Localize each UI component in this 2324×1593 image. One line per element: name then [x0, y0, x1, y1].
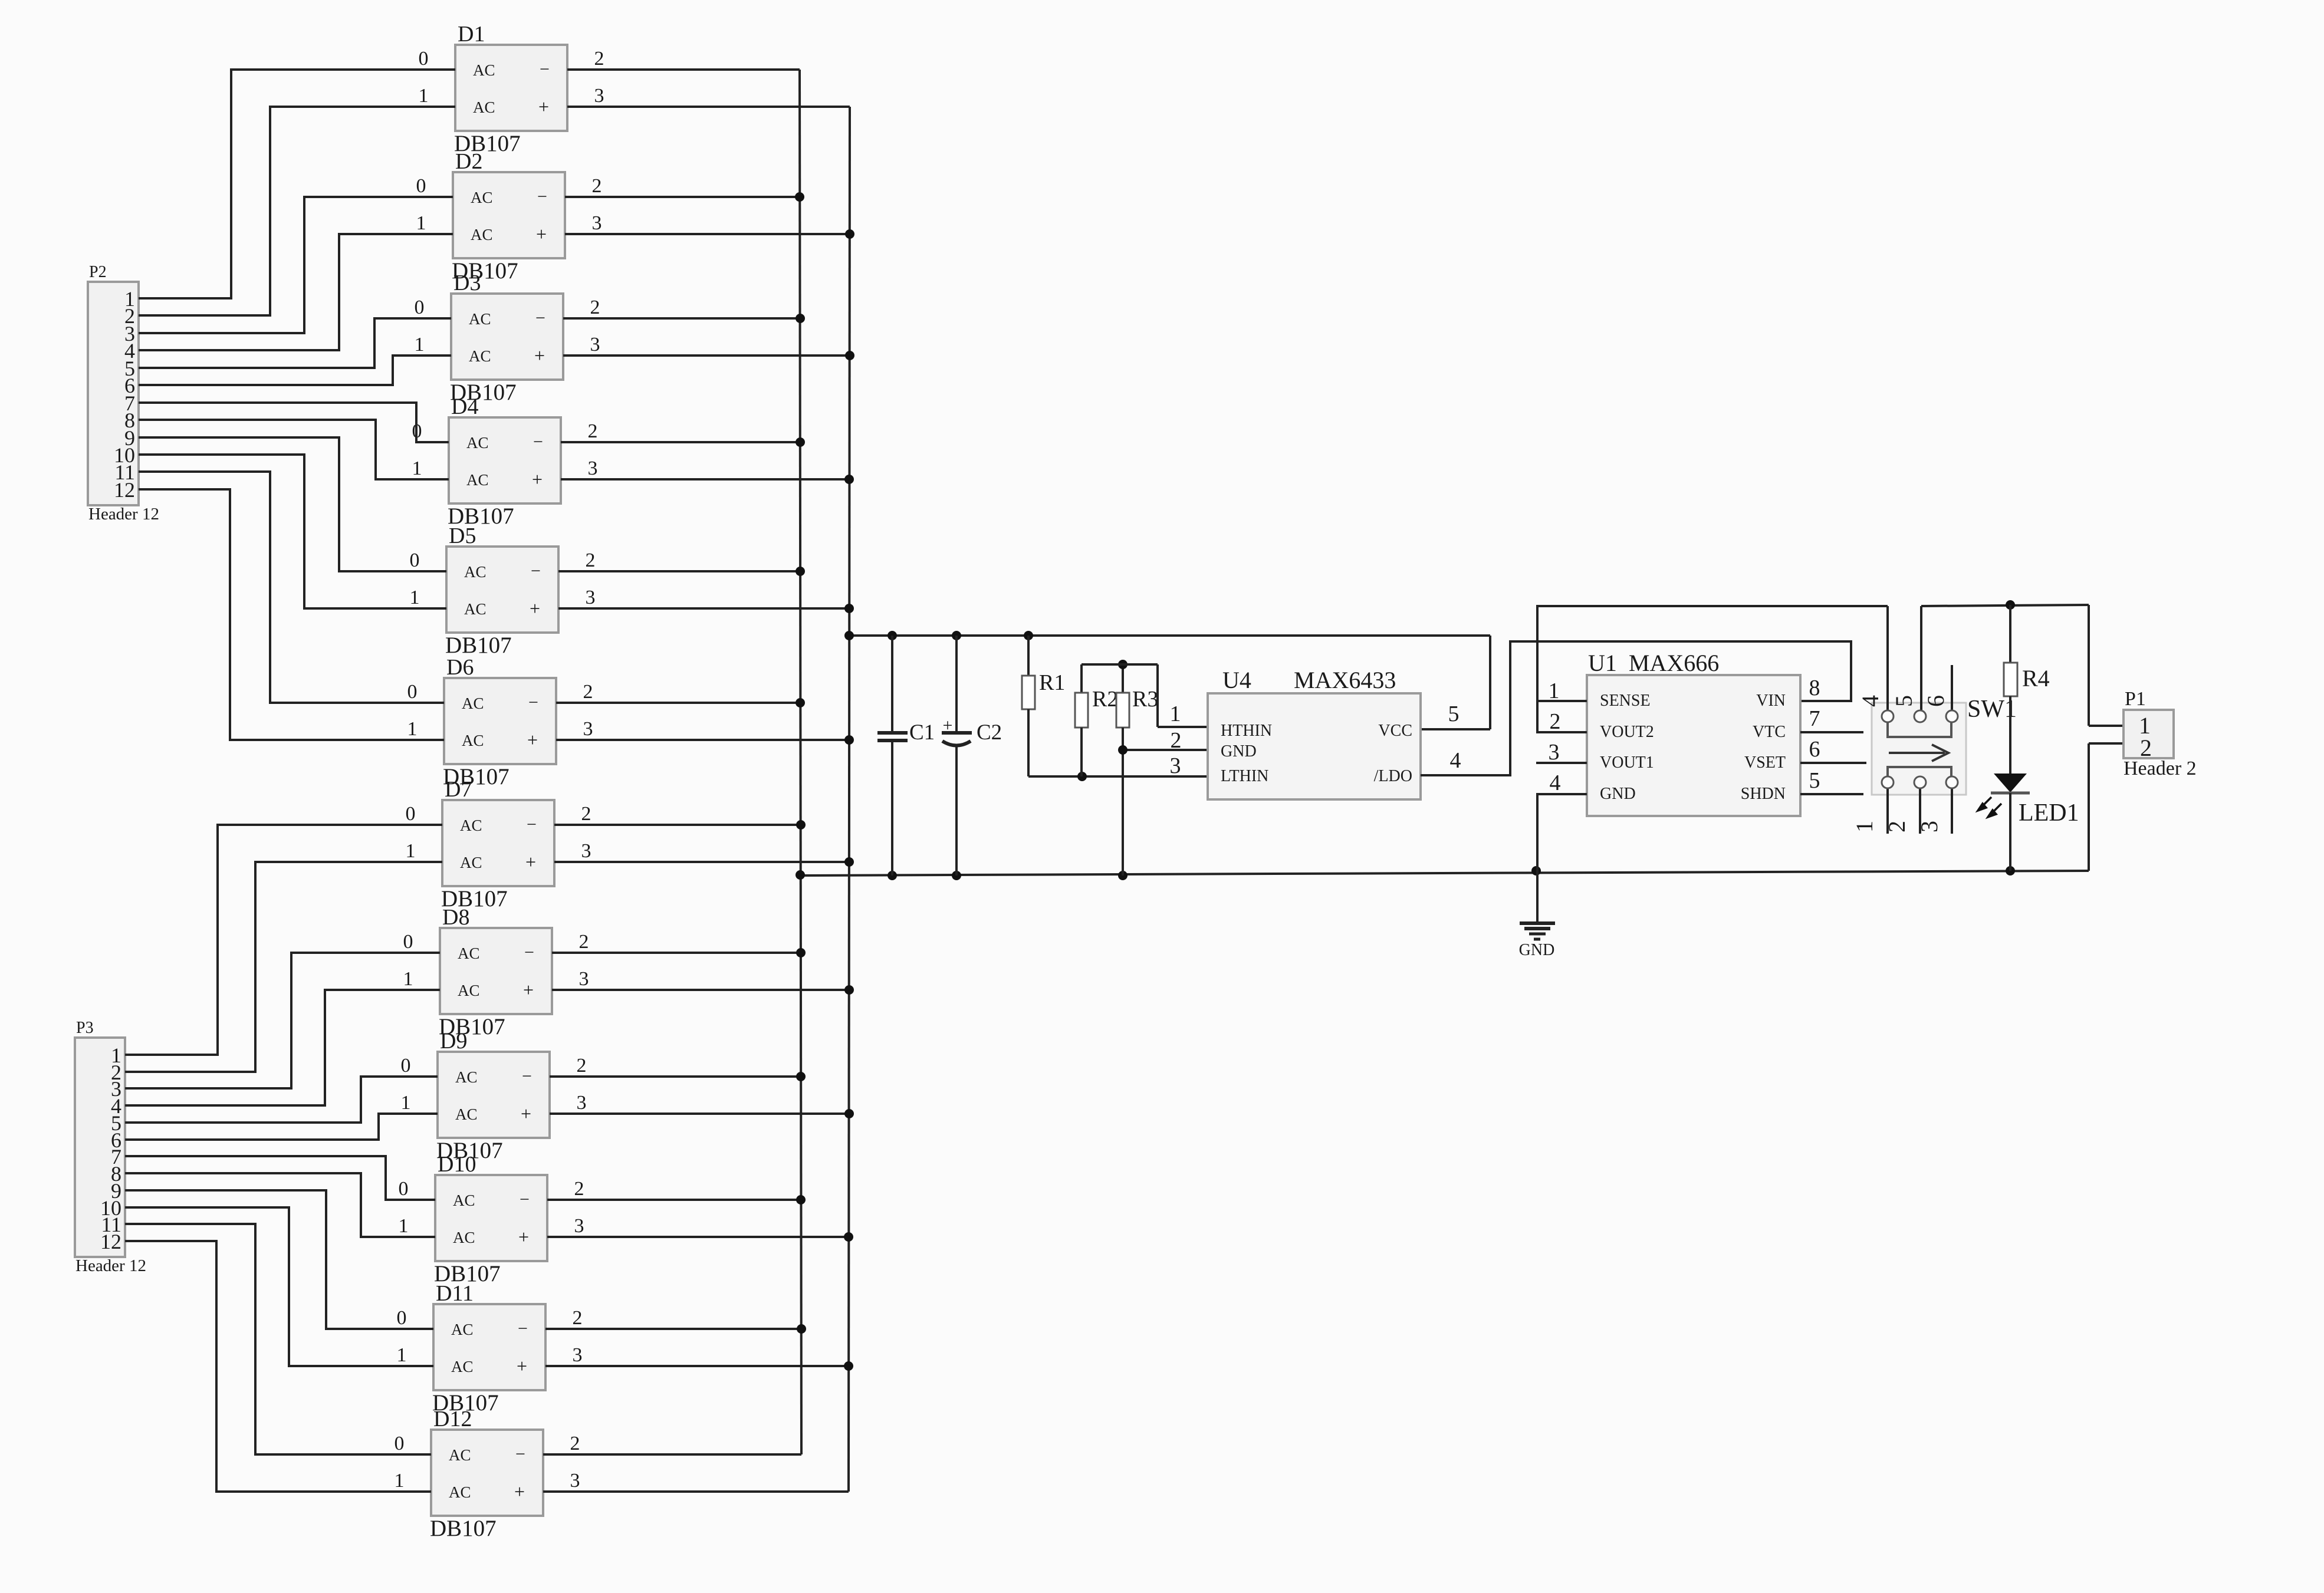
svg-text:R4: R4 [2022, 665, 2050, 692]
svg-text:+: + [521, 1103, 531, 1124]
svg-text:2: 2 [594, 48, 604, 70]
svg-text:3: 3 [581, 840, 591, 862]
svg-text:D9: D9 [440, 1029, 467, 1054]
svg-text:−: − [515, 1444, 525, 1464]
svg-text:−: − [533, 432, 543, 452]
svg-text:−: − [537, 187, 547, 206]
svg-text:1: 1 [1170, 702, 1181, 726]
svg-text:/LDO: /LDO [1374, 767, 1412, 785]
svg-text:C1: C1 [909, 720, 935, 745]
svg-text:2: 2 [574, 1178, 584, 1200]
svg-text:R3: R3 [1132, 687, 1158, 712]
svg-text:1: 1 [416, 212, 426, 234]
svg-text:2: 2 [579, 931, 589, 953]
svg-text:8: 8 [1809, 676, 1820, 700]
svg-text:D7: D7 [445, 777, 472, 802]
svg-text:+: + [527, 729, 538, 751]
svg-text:3: 3 [574, 1215, 584, 1237]
svg-text:2: 2 [586, 549, 596, 571]
svg-text:0: 0 [395, 1433, 405, 1454]
svg-text:+: + [943, 716, 953, 735]
svg-text:−: − [535, 308, 545, 328]
svg-text:P1: P1 [2125, 688, 2146, 710]
svg-text:AC: AC [471, 189, 493, 206]
svg-text:D2: D2 [455, 149, 482, 174]
svg-text:+: + [530, 598, 540, 619]
svg-text:AC: AC [469, 310, 491, 328]
svg-text:0: 0 [415, 297, 425, 318]
svg-text:AC: AC [473, 98, 495, 116]
svg-text:−: − [520, 1190, 530, 1209]
svg-text:1: 1 [419, 85, 429, 107]
svg-text:AC: AC [460, 817, 482, 834]
svg-text:D10: D10 [438, 1152, 476, 1177]
svg-text:VOUT1: VOUT1 [1600, 753, 1654, 772]
svg-text:0: 0 [419, 48, 429, 70]
svg-text:Header 2: Header 2 [2124, 758, 2197, 779]
svg-text:1: 1 [412, 458, 422, 479]
svg-text:+: + [523, 979, 534, 1000]
svg-text:4: 4 [1450, 748, 1461, 773]
svg-text:3: 3 [588, 458, 598, 479]
svg-text:1: 1 [406, 840, 416, 862]
svg-text:0: 0 [397, 1307, 407, 1329]
svg-text:AC: AC [453, 1229, 475, 1246]
svg-text:D4: D4 [451, 394, 478, 419]
svg-text:D11: D11 [436, 1281, 474, 1306]
svg-text:−: − [531, 561, 541, 581]
svg-text:3: 3 [1916, 821, 1942, 832]
svg-text:2: 2 [588, 420, 598, 442]
svg-text:2: 2 [590, 297, 600, 318]
svg-text:GND: GND [1221, 742, 1257, 761]
svg-text:0: 0 [401, 1055, 411, 1077]
svg-text:D12: D12 [433, 1407, 472, 1431]
svg-text:U4: U4 [1222, 667, 1251, 693]
svg-text:0: 0 [416, 175, 426, 197]
svg-text:+: + [517, 1355, 527, 1377]
svg-text:2: 2 [1883, 821, 1910, 832]
svg-text:D6: D6 [446, 655, 474, 680]
svg-text:2: 2 [1550, 709, 1561, 734]
svg-text:−: − [524, 943, 534, 962]
svg-text:1: 1 [415, 334, 425, 356]
svg-text:+: + [536, 223, 547, 245]
svg-text:7: 7 [1809, 706, 1820, 731]
svg-text:U1 MAX666: U1 MAX666 [1588, 650, 1719, 676]
svg-text:1: 1 [395, 1470, 405, 1492]
svg-text:2: 2 [577, 1055, 587, 1077]
svg-text:1: 1 [1851, 821, 1878, 832]
svg-text:0: 0 [406, 803, 416, 825]
svg-text:SHDN: SHDN [1741, 785, 1786, 803]
svg-text:HTHIN: HTHIN [1221, 722, 1272, 740]
svg-text:−: − [540, 60, 550, 79]
svg-text:Header 12: Header 12 [75, 1256, 146, 1275]
svg-text:AC: AC [473, 61, 495, 79]
svg-text:D3: D3 [453, 271, 481, 295]
svg-text:2: 2 [592, 175, 602, 197]
svg-text:12: 12 [100, 1230, 121, 1253]
svg-text:3: 3 [570, 1470, 580, 1492]
svg-text:LTHIN: LTHIN [1221, 767, 1268, 785]
svg-text:+: + [532, 469, 543, 490]
svg-text:P2: P2 [89, 263, 107, 281]
svg-text:AC: AC [455, 1105, 478, 1123]
svg-text:3: 3 [592, 212, 602, 234]
svg-text:AC: AC [466, 471, 489, 489]
svg-text:C2: C2 [977, 720, 1002, 745]
svg-text:0: 0 [407, 681, 418, 703]
svg-text:0: 0 [403, 931, 413, 953]
svg-text:AC: AC [451, 1358, 474, 1375]
svg-text:GND: GND [1519, 941, 1555, 959]
svg-text:2: 2 [1171, 728, 1182, 753]
svg-text:−: − [528, 693, 538, 712]
svg-text:3: 3 [1549, 740, 1560, 765]
svg-text:AC: AC [458, 982, 480, 999]
svg-text:P3: P3 [76, 1019, 94, 1037]
svg-text:0: 0 [410, 549, 420, 571]
svg-text:AC: AC [466, 434, 489, 452]
svg-text:MAX6433: MAX6433 [1294, 667, 1396, 693]
svg-text:2: 2 [570, 1433, 580, 1454]
svg-text:−: − [518, 1319, 528, 1338]
svg-text:1: 1 [407, 718, 418, 740]
svg-text:−: − [527, 815, 537, 834]
svg-text:6: 6 [1809, 737, 1820, 762]
svg-text:3: 3 [590, 334, 600, 356]
svg-text:AC: AC [449, 1483, 471, 1501]
svg-text:AC: AC [449, 1446, 471, 1464]
svg-text:1: 1 [399, 1215, 409, 1237]
svg-text:VIN: VIN [1756, 692, 1786, 710]
svg-text:AC: AC [469, 347, 491, 365]
svg-text:R2: R2 [1092, 687, 1118, 712]
svg-text:3: 3 [1170, 753, 1181, 778]
svg-text:3: 3 [573, 1344, 583, 1366]
svg-text:5: 5 [1448, 702, 1460, 726]
svg-text:Header 12: Header 12 [88, 505, 159, 524]
svg-text:VCC: VCC [1378, 722, 1412, 740]
svg-text:−: − [522, 1067, 532, 1086]
svg-text:VOUT2: VOUT2 [1600, 723, 1654, 741]
svg-text:1: 1 [410, 587, 420, 608]
svg-text:+: + [518, 1226, 529, 1248]
svg-text:AC: AC [455, 1068, 478, 1086]
svg-text:4: 4 [1857, 695, 1883, 707]
svg-text:2: 2 [583, 681, 593, 703]
svg-text:1: 1 [1549, 679, 1560, 703]
svg-text:AC: AC [464, 563, 487, 581]
svg-text:0: 0 [399, 1178, 409, 1200]
svg-text:1: 1 [401, 1092, 411, 1114]
svg-text:GND: GND [1600, 785, 1636, 803]
svg-text:+: + [534, 345, 545, 366]
svg-text:3: 3 [577, 1092, 587, 1114]
svg-text:+: + [538, 96, 549, 117]
svg-text:DB107: DB107 [430, 1516, 497, 1541]
svg-text:AC: AC [458, 944, 480, 962]
svg-text:D5: D5 [449, 524, 476, 548]
svg-text:R1: R1 [1039, 670, 1065, 695]
svg-text:+: + [525, 851, 536, 873]
svg-text:3: 3 [579, 968, 589, 990]
svg-text:SENSE: SENSE [1600, 692, 1651, 710]
svg-text:AC: AC [451, 1321, 474, 1338]
svg-text:3: 3 [594, 85, 604, 107]
svg-text:AC: AC [462, 732, 484, 749]
svg-text:D8: D8 [442, 905, 469, 930]
svg-text:5: 5 [1809, 768, 1820, 793]
svg-text:D1: D1 [458, 22, 485, 47]
svg-text:2: 2 [581, 803, 591, 825]
svg-text:AC: AC [453, 1192, 475, 1209]
svg-text:3: 3 [583, 718, 593, 740]
svg-text:6: 6 [1922, 695, 1949, 707]
svg-text:1: 1 [397, 1344, 407, 1366]
svg-text:+: + [514, 1481, 525, 1502]
svg-text:4: 4 [1550, 771, 1561, 795]
svg-text:3: 3 [586, 587, 596, 608]
svg-text:2: 2 [573, 1307, 583, 1329]
svg-text:AC: AC [464, 600, 487, 618]
svg-text:12: 12 [114, 478, 135, 502]
svg-text:AC: AC [460, 854, 482, 871]
svg-text:AC: AC [462, 695, 484, 712]
svg-text:1: 1 [403, 968, 413, 990]
svg-text:LED1: LED1 [2019, 799, 2079, 827]
svg-text:AC: AC [471, 226, 493, 243]
svg-text:5: 5 [1891, 695, 1917, 707]
svg-text:VTC: VTC [1753, 723, 1786, 741]
svg-text:VSET: VSET [1744, 753, 1786, 772]
svg-text:DB107: DB107 [445, 633, 512, 658]
